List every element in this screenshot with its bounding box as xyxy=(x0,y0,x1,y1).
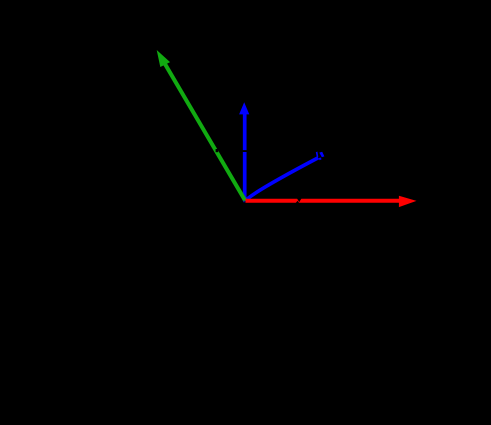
black label notch on green vector xyxy=(216,149,219,152)
arrowhead remnant: lower blob xyxy=(319,158,322,161)
arrowhead remnant: left sliver xyxy=(316,152,319,158)
arrowhead remnant: middle band xyxy=(319,152,324,157)
vector v (blue, up-right diagonal) xyxy=(245,152,324,201)
vector i (red, horizontal right) xyxy=(246,196,417,207)
black label gap over blue vertical vector xyxy=(239,150,250,152)
vector w (green, up-left) xyxy=(157,50,246,201)
dim blue stub at origin (diagonal line cap remnant) xyxy=(243,200,246,202)
black label gap over red vector: top wedge xyxy=(297,198,302,202)
vector j (blue, vertical up) xyxy=(239,102,249,201)
black label gap over red vector: bottom wedge xyxy=(296,201,300,203)
